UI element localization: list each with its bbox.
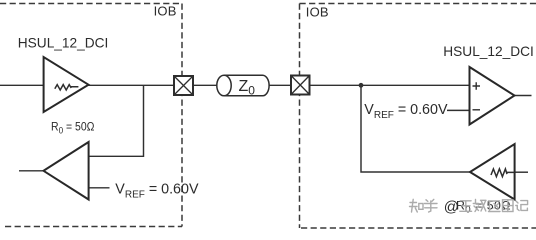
svg-text:IOB: IOB: [154, 4, 177, 19]
svg-text:HSUL_12_DCI: HSUL_12_DCI: [443, 44, 534, 59]
svg-text:IOB: IOB: [306, 4, 329, 19]
svg-text:HSUL_12_DCI: HSUL_12_DCI: [18, 36, 109, 51]
svg-text:@: @: [444, 198, 459, 215]
svg-text:R0 = 50Ω: R0 = 50Ω: [51, 119, 95, 135]
